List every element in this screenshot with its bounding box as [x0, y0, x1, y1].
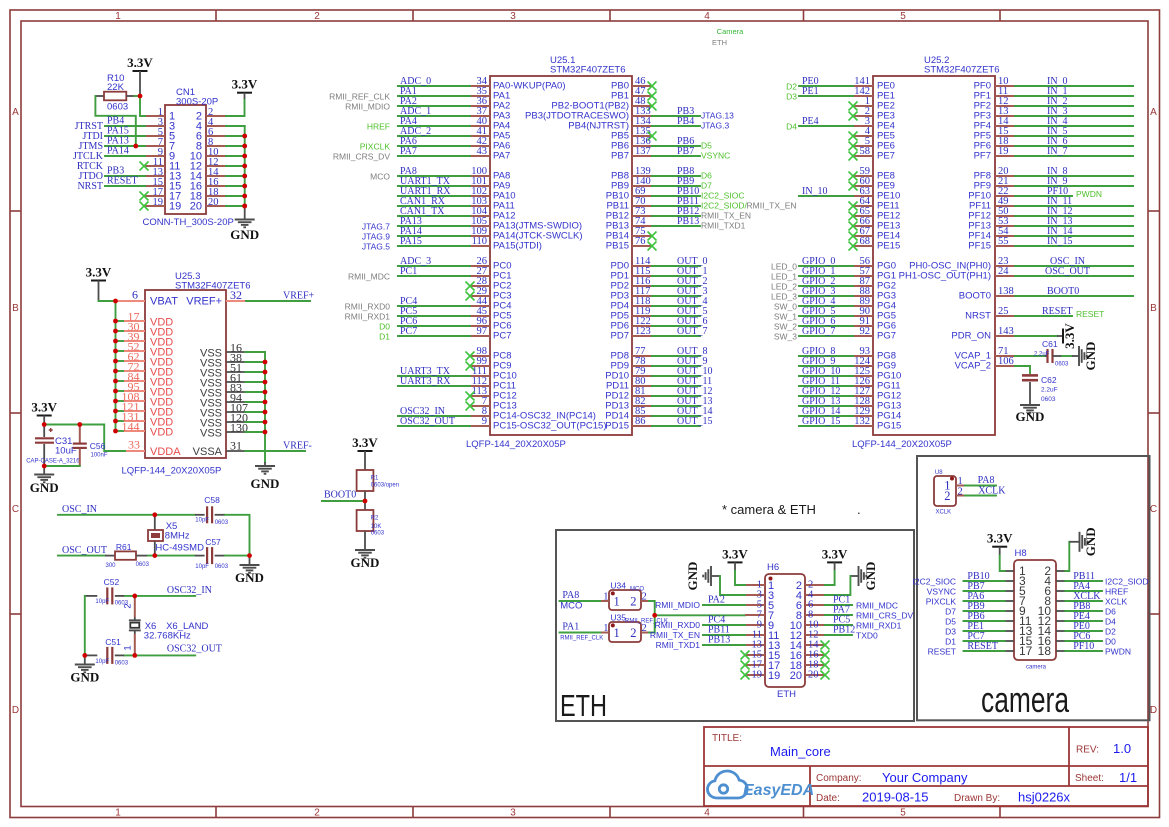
- H6 wire RMII_TX_EN PB11: [650, 625, 745, 641]
- svg-text:0603: 0603: [371, 531, 385, 537]
- svg-text:10pF: 10pF: [195, 564, 209, 570]
- svg-text:VREF-: VREF-: [283, 441, 312, 452]
- CN1 pin 5 (left): [145, 127, 175, 143]
- H6 pin 14 (right): [790, 640, 825, 652]
- svg-text:GND: GND: [1016, 409, 1045, 424]
- svg-text:3.3V: 3.3V: [722, 546, 748, 561]
- U25.1 pin 133 PB3(JTDOTRACESWO) (right): [525, 106, 734, 121]
- H8 wire D1 PC7 (left): [945, 631, 1004, 647]
- svg-text:H8: H8: [1015, 548, 1027, 559]
- svg-text:20: 20: [808, 670, 819, 681]
- svg-text:R1: R1: [371, 476, 379, 482]
- svg-text:0603: 0603: [1041, 396, 1056, 403]
- svg-text:REV:: REV:: [1076, 745, 1099, 756]
- svg-text:I2C2_SIOD: I2C2_SIOD: [1105, 577, 1148, 587]
- capacitor C62 2.2uF: [1022, 375, 1058, 404]
- CN1 pin 13 (left): [145, 167, 181, 183]
- H6 pin 17 (left): [745, 660, 780, 672]
- CN1 pin 19 (left): [145, 197, 181, 213]
- svg-text:PA7: PA7: [493, 150, 510, 161]
- svg-text:86: 86: [635, 416, 646, 427]
- svg-text:PC1: PC1: [400, 266, 417, 277]
- H6 wire RMII_CRS_DV PA7 (right): [825, 605, 913, 621]
- U25.2 pin 66 PE13 (left): [849, 216, 901, 231]
- svg-text:LED_0: LED_0: [771, 262, 797, 272]
- U25.2 pin 5 PE6 (left): [849, 136, 895, 151]
- svg-text:R2: R2: [371, 516, 379, 522]
- H8 wire I2C2_SIOC PB10 (left): [913, 571, 1005, 587]
- H6 wire RMII_MDC PC1 (right): [825, 595, 898, 611]
- U25.3 pin 83 VSS: [200, 381, 265, 400]
- svg-text:PDR_ON: PDR_ON: [951, 330, 991, 341]
- H8 wire D7 PB9 (left): [945, 601, 1004, 617]
- node BOOT0 wire and junction: [322, 490, 365, 511]
- H6 pin 18 (right): [790, 660, 825, 672]
- U25.1 pin 37 PA3 (left): [398, 106, 510, 121]
- U25.3 pin 38 VSS: [200, 351, 265, 370]
- U25.2 pin 13 PF3 (right): [974, 106, 1133, 121]
- svg-text:NRST: NRST: [965, 310, 991, 321]
- svg-text:PA8: PA8: [978, 475, 995, 486]
- svg-text:JTAG.9: JTAG.9: [362, 232, 390, 242]
- U25.1 pin 80 PD11 (right): [606, 376, 712, 391]
- H8 pin 4 (right): [1044, 574, 1065, 588]
- svg-text:RESET: RESET: [928, 647, 956, 657]
- CN1 pin 14 (right): [190, 167, 226, 183]
- svg-text:RMII_TXD1: RMII_TXD1: [656, 640, 701, 650]
- svg-text:JTAG.7: JTAG.7: [362, 222, 390, 232]
- H6 pin 10 (right): [790, 620, 825, 632]
- svg-text:1: 1: [958, 476, 963, 487]
- U25.1 pin 111 PC10 (left): [398, 366, 517, 381]
- svg-text:B: B: [12, 303, 19, 314]
- svg-text:RMII_TXD1: RMII_TXD1: [701, 221, 746, 231]
- U25.1 pin 139 PB8 (right): [611, 166, 712, 181]
- H8 pin 15 (left): [1005, 634, 1033, 648]
- svg-text:GND: GND: [230, 227, 259, 242]
- U25.2 pin 50 PF12 (right): [968, 206, 1133, 221]
- svg-text:1: 1: [115, 11, 121, 22]
- svg-text:5: 5: [900, 807, 906, 818]
- svg-text:24: 24: [998, 266, 1009, 277]
- H6 pin 1 (left): [745, 580, 774, 592]
- svg-text:RMII_TX_EN: RMII_TX_EN: [747, 201, 797, 211]
- U25.2 pin 142 PE1 (left): [786, 86, 895, 102]
- ETH sub-circuit box: [556, 530, 914, 723]
- svg-text:2019-08-15: 2019-08-15: [862, 790, 929, 805]
- svg-text:PD7: PD7: [611, 330, 629, 341]
- U25.2 pin 92 PG7 (left): [774, 326, 896, 342]
- svg-text:RMII_TX_EN: RMII_TX_EN: [701, 211, 751, 221]
- svg-text:LED_2: LED_2: [771, 282, 797, 292]
- svg-text:PG15: PG15: [877, 420, 901, 431]
- svg-text:3: 3: [510, 807, 516, 818]
- U25.2 pin 3 PE4 (left): [786, 116, 895, 132]
- svg-text:19: 19: [768, 670, 780, 682]
- U25.1 pin 117 PD3 (right): [611, 286, 708, 301]
- U25.2 pin 1 PE2 (left): [849, 96, 895, 111]
- node JTRST wire to CN1: [75, 116, 145, 133]
- H6 pin 6 (right): [796, 600, 825, 612]
- H8 wire D5 PB6 (left): [945, 611, 1004, 627]
- H8 pin 14 (right): [1038, 624, 1066, 638]
- svg-text:OSC_OUT: OSC_OUT: [1045, 266, 1090, 277]
- node JTDI wire to CN1: [82, 126, 145, 143]
- U25.2 pin 129 PG14 (left): [799, 406, 901, 421]
- svg-text:hsj0226x: hsj0226x: [1018, 790, 1071, 805]
- svg-text:JTAG.5: JTAG.5: [362, 242, 390, 252]
- U25.1 pin 35 PA1 (left): [329, 86, 510, 102]
- svg-text:TITLE:: TITLE:: [712, 733, 742, 744]
- svg-text:3.3V: 3.3V: [127, 55, 153, 70]
- svg-text:10pF: 10pF: [195, 518, 209, 524]
- svg-text:143: 143: [998, 326, 1014, 337]
- svg-text:XCLK: XCLK: [936, 510, 952, 516]
- svg-text:PB7: PB7: [611, 150, 629, 161]
- H6 pin 5 (left): [745, 600, 774, 612]
- svg-text:GND: GND: [70, 670, 99, 685]
- CN1 pin 7 (left): [145, 137, 175, 153]
- H8 pin 13 (left): [1005, 624, 1033, 638]
- svg-text:PD15: PD15: [605, 420, 629, 431]
- ground GND below C62: [1016, 405, 1045, 424]
- svg-text:OSC32_OUT: OSC32_OUT: [400, 416, 455, 427]
- svg-text:2: 2: [123, 603, 134, 608]
- U25.1 pin 7 PC13 (left): [466, 396, 517, 411]
- svg-text:STM32F407ZET6: STM32F407ZET6: [924, 65, 1000, 76]
- svg-text:MCO: MCO: [370, 172, 390, 182]
- U25.1 pin 102 PA10 (left): [398, 186, 516, 201]
- U25.2 pin 24 PH1-OSC_OUT wire OSC_OUT: [899, 266, 1133, 281]
- svg-text:C52: C52: [104, 577, 120, 587]
- U25.3 pin 17 VDD: [116, 310, 174, 329]
- svg-text:BOOT0: BOOT0: [959, 290, 991, 301]
- ground GND sideways at H8 pin 2: [1065, 527, 1098, 571]
- svg-text:C57: C57: [205, 537, 221, 547]
- svg-text:2: 2: [630, 595, 636, 609]
- svg-text:31: 31: [230, 439, 242, 453]
- U25.3 pin 6 VBAT: [116, 288, 179, 308]
- svg-text:106: 106: [998, 356, 1014, 367]
- U25.1 pin 98 PC8 (left): [466, 346, 512, 361]
- H8 pin 12 (right): [1038, 614, 1066, 628]
- U25.1 pin 44 PC4 (left): [345, 296, 512, 312]
- U25.3 pin 120 VSS: [200, 411, 265, 430]
- svg-text:19: 19: [752, 670, 763, 681]
- svg-text:PA8: PA8: [562, 590, 579, 601]
- svg-text:1: 1: [614, 626, 620, 640]
- svg-text:PB12: PB12: [833, 625, 855, 636]
- U25.2 pin 126 PG11 (left): [799, 376, 901, 391]
- U25.1 pin 116 PD2 (right): [611, 276, 708, 291]
- U25.1 pin 45 PC5 (left): [345, 306, 512, 322]
- resistor R10 22K 0603: [96, 73, 135, 113]
- svg-text:0603: 0603: [136, 562, 150, 568]
- node PA8 MCO wire to U34: [560, 590, 601, 612]
- U25.2 pin 93 PG8 (left): [799, 346, 896, 361]
- node JTCLK wire to CN1: [73, 146, 145, 163]
- crystal X6 32.768KHz X6_LAND: [123, 596, 209, 656]
- svg-text:1: 1: [115, 807, 121, 818]
- U25.3 pin 131 VDD: [116, 410, 174, 429]
- svg-text:Company:: Company:: [816, 773, 862, 784]
- svg-text:3.3V: 3.3V: [31, 400, 57, 415]
- svg-text:300S-20P: 300S-20P: [176, 97, 218, 108]
- wire 3.3V to VDDA: [44, 425, 125, 452]
- svg-text:EasyEDA: EasyEDA: [743, 782, 814, 799]
- svg-text:XCLK: XCLK: [1105, 597, 1128, 607]
- svg-text:132: 132: [854, 416, 870, 427]
- U25.1 pin 115 PD1 (right): [611, 266, 708, 281]
- power 3.3V at CN1 pin 2: [232, 77, 258, 100]
- svg-text:TXD0: TXD0: [856, 631, 878, 641]
- svg-text:19: 19: [169, 201, 181, 213]
- svg-text:GND: GND: [1083, 527, 1098, 556]
- H8 pin 17 (left): [1005, 644, 1033, 658]
- svg-text:C: C: [12, 504, 19, 515]
- svg-text:3.3V: 3.3V: [86, 265, 112, 280]
- H8 pin 6 (right): [1044, 584, 1065, 598]
- H8 wire D4 PE4 (right): [1065, 611, 1116, 627]
- U25.1 pin 109 PA14(JTCK-SWCLK) (left): [362, 226, 583, 242]
- svg-text:RMII_MDC: RMII_MDC: [856, 601, 898, 611]
- svg-text:PH1-OSC_OUT(PH1): PH1-OSC_OUT(PH1): [899, 270, 991, 281]
- U25.1 pin 103 PA11 (left): [398, 196, 515, 211]
- H8 pin 1 (left): [1005, 564, 1026, 578]
- U25.3 pin 51 VSS: [200, 361, 265, 380]
- ground GND sideways at H6 pin 3: [685, 562, 745, 595]
- svg-text:VDDA: VDDA: [150, 446, 181, 458]
- svg-text:camera: camera: [981, 679, 1070, 720]
- CN1 pin 4 (right): [196, 117, 226, 133]
- ground GND below VSS bus: [251, 462, 280, 491]
- U25.1 pin 69 PB10 (right): [606, 186, 745, 201]
- capacitor C52 10pF 0603: [85, 577, 129, 607]
- svg-text:3.3V: 3.3V: [1062, 323, 1077, 349]
- svg-text:D2: D2: [786, 82, 797, 92]
- U25.1 pin 134 PB4(NJTRST) (right): [568, 116, 729, 131]
- H6 pin 2 (right): [796, 580, 825, 592]
- svg-text:10pF: 10pF: [95, 659, 109, 665]
- U25.3 pin 33 VDDA: [125, 438, 181, 458]
- U25.2 pin 49 PF11 (right): [969, 196, 1133, 211]
- H6 pin 20 (right): [790, 670, 825, 682]
- svg-text:A: A: [1150, 107, 1157, 118]
- U25.1 pin 85 PD14 (right): [605, 406, 712, 421]
- svg-text:C58: C58: [204, 495, 220, 505]
- capacitor C58 10pF 0603: [195, 495, 229, 526]
- U25.2 pin 56 PG0 (left): [771, 256, 896, 272]
- CN1 pin 9 (left): [145, 147, 175, 163]
- svg-text:32: 32: [230, 288, 242, 302]
- U25.2 pin 11 PF1 (right): [974, 86, 1133, 101]
- svg-text:VCAP_2: VCAP_2: [955, 360, 991, 371]
- svg-text:C56: C56: [90, 441, 106, 451]
- U25.2 pin 54 PF14 (right): [968, 226, 1133, 241]
- U25.1 pin 118 PD4 (right): [611, 296, 708, 311]
- U25.2 pin 87 PG2 (left): [771, 276, 896, 292]
- H8 wire RESET RESET (left): [928, 641, 1005, 657]
- U25.3 pin 30 VDD: [116, 320, 174, 339]
- svg-text:RMII_MDIO: RMII_MDIO: [655, 600, 700, 610]
- U25.1 pin 26 PC0 (left): [398, 256, 511, 271]
- svg-text:0603: 0603: [215, 564, 229, 570]
- svg-text:PB7: PB7: [677, 146, 694, 157]
- U25.1 pin 82 PD13 (right): [605, 396, 712, 411]
- U25.2 pin 53 PF13 (right): [968, 216, 1133, 231]
- svg-text:PF10: PF10: [1073, 641, 1094, 652]
- ground GND at 32k oscillator: [70, 655, 99, 684]
- node JTMS wire to CN1: [79, 136, 145, 153]
- U25.2 pin 141 PE0 (left): [786, 76, 895, 92]
- power 3.3V at H8 pin 1: [987, 531, 1013, 571]
- svg-text:OUT_7: OUT_7: [677, 326, 708, 337]
- node RTCK wire to CN1: [77, 161, 104, 172]
- svg-text:HREF: HREF: [1105, 587, 1128, 597]
- svg-text:VSS: VSS: [200, 427, 222, 439]
- node PA1 RMII_REF_CLK wire to U35: [560, 622, 604, 642]
- U25.3 pin 31 VSSA wire VREF-: [193, 439, 312, 458]
- U25.3 pin 52 VDD: [116, 340, 174, 359]
- svg-text:D6: D6: [701, 171, 712, 181]
- U25.1 pin 112 PC11 (left): [398, 376, 516, 391]
- U25.1 pin 47 PB1 (right): [611, 86, 656, 101]
- svg-text:97: 97: [477, 326, 488, 337]
- svg-text:PA14: PA14: [107, 146, 129, 157]
- H6 pin 12 (right): [790, 630, 825, 642]
- svg-text:76: 76: [635, 236, 646, 247]
- capacitor C56 100nF: [73, 425, 108, 467]
- svg-text:C62: C62: [1041, 375, 1057, 385]
- svg-text:SW_2: SW_2: [774, 322, 797, 332]
- svg-text:RMII_MDIO: RMII_MDIO: [345, 102, 390, 112]
- H6 wire RMII_RXD0 PC4: [655, 615, 745, 631]
- svg-text:Date:: Date:: [816, 793, 840, 804]
- wire CN1 even pins to ground bus: [226, 126, 245, 206]
- wire R61 to X5 and C57: [148, 555, 195, 557]
- U25.2 pin 128 PG13 (left): [799, 396, 901, 411]
- svg-text:2: 2: [944, 489, 950, 503]
- svg-text:GND: GND: [30, 480, 59, 495]
- U25.2 pin 65 PE12 (left): [849, 206, 901, 221]
- U25.2 pin 15 PF5 (right): [974, 126, 1133, 141]
- U25.2 pin 132 PG15 (left): [799, 416, 901, 431]
- power 3.3V at H6 pin 2: [822, 546, 848, 585]
- svg-text:PC7: PC7: [400, 326, 417, 337]
- capacitor C51 10pF 0603: [85, 637, 129, 667]
- svg-text:RMII_MDC: RMII_MDC: [348, 272, 390, 282]
- svg-text:D0: D0: [379, 322, 390, 332]
- U25.3 pin 121 VDD: [116, 400, 174, 419]
- svg-text:3: 3: [510, 11, 516, 22]
- svg-text:* camera & ETH: * camera & ETH: [722, 502, 816, 517]
- node OSC32_IN wire: [125, 585, 212, 596]
- svg-text:58: 58: [860, 146, 871, 157]
- U25.1 pin 122 PD6 (right): [611, 316, 708, 331]
- U25.2 pin 20 PF8 (right): [974, 166, 1133, 181]
- svg-text:RMII_REF_CLK: RMII_REF_CLK: [329, 92, 390, 102]
- svg-text:RMII_RXD0: RMII_RXD0: [655, 620, 701, 630]
- U25.1 pin 113 PC12 (left): [466, 386, 517, 401]
- svg-text:JTAG.13: JTAG.13: [701, 111, 734, 121]
- H6 wire RMII_TXD1 PB13: [656, 635, 745, 651]
- svg-text:GPIO_15: GPIO_15: [802, 416, 840, 427]
- wire 3.3V to VBAT and VDD bus: [99, 301, 116, 431]
- svg-text:camera: camera: [1026, 665, 1047, 671]
- svg-text:Your Company: Your Company: [882, 770, 968, 785]
- wire C31 C56 ground link: [44, 465, 80, 467]
- crystal X5 8MHz HC-49SMD: [148, 515, 204, 556]
- svg-text:OSC32_IN: OSC32_IN: [167, 585, 212, 596]
- H6 pin 3 (left): [745, 590, 774, 602]
- U25.1 pin 97 PC7 (left): [379, 326, 511, 342]
- connector H8 camera: [1014, 548, 1056, 671]
- svg-text:RMII_CRS_DV: RMII_CRS_DV: [856, 611, 913, 621]
- U25.1 pin 136 PB6 (right): [611, 136, 712, 151]
- H8 wire HREF PA4 (right): [1065, 581, 1128, 597]
- U25.2 pin 25 NRST wire RESET: [965, 306, 1104, 321]
- note camera and ETH: [722, 502, 861, 517]
- U25.2 pin 125 PG10 (left): [799, 366, 901, 381]
- svg-text:C61: C61: [1042, 339, 1058, 349]
- svg-text:5: 5: [900, 11, 906, 22]
- U25.2 pin 19 PF7 (right): [974, 146, 1133, 161]
- svg-text:D6: D6: [1105, 607, 1116, 617]
- svg-text:RMII_RXD1: RMII_RXD1: [345, 312, 391, 322]
- svg-text:GND: GND: [863, 562, 878, 591]
- svg-text:2.2uF: 2.2uF: [1034, 352, 1050, 358]
- svg-text:32.768KHz: 32.768KHz: [144, 631, 191, 642]
- U25.1 pin 79 PD10 (right): [605, 366, 712, 381]
- connector CN1 300S-20P: [143, 87, 234, 228]
- svg-text:1.0: 1.0: [1113, 741, 1131, 756]
- H8 pin 16 (right): [1038, 634, 1066, 648]
- U25.1 pin 86 PD15 (right): [605, 416, 712, 431]
- U25.2 pin 22 PF10 (right): [968, 186, 1102, 201]
- svg-text:PA7: PA7: [400, 146, 417, 157]
- svg-text:3.3V: 3.3V: [987, 531, 1013, 546]
- part U8 XCLK: [934, 470, 965, 516]
- U25.1 pin 123 PD7 (right): [611, 326, 708, 341]
- power 3.3V at VBAT: [86, 265, 112, 302]
- U25.3 pin 62 VDD: [116, 350, 174, 369]
- svg-text:100nF: 100nF: [91, 453, 108, 459]
- U25.3 pin 72 VDD: [116, 360, 174, 379]
- svg-text:U35: U35: [610, 613, 626, 623]
- U25.1 pin 46 PB0 (right): [611, 76, 656, 91]
- svg-text:RMII_REF_CLK: RMII_REF_CLK: [560, 636, 603, 642]
- svg-text:PG7: PG7: [877, 330, 896, 341]
- U25.1 pin 73 PB12 (right): [606, 206, 751, 221]
- svg-text:0603: 0603: [115, 661, 129, 667]
- U25.1 pin 114 PD0 (right): [611, 256, 708, 271]
- CN1 pin 10 (right): [190, 147, 226, 163]
- svg-text:VSYNC: VSYNC: [701, 151, 730, 161]
- svg-text:RMII_TX_EN: RMII_TX_EN: [650, 630, 700, 640]
- U25.2 pin 10 PF0 (right): [974, 76, 1133, 91]
- U25.1 pin 78 PD9 (right): [611, 356, 708, 371]
- title block: [704, 727, 1148, 806]
- H6 pin 16 (right): [790, 650, 825, 662]
- svg-text:RESET: RESET: [107, 176, 138, 187]
- U25.1 pin 9 PC15-OSC32_OUT(PC15) (left): [398, 416, 607, 431]
- U25.1 pin 29 PC3 (left): [466, 286, 512, 301]
- H8 pin 7 (left): [1005, 594, 1026, 608]
- CN1 pin 16 (right): [190, 177, 226, 193]
- capacitor C31 10uF polarized CAP-CASE-A_3216: [26, 425, 80, 467]
- U25.2 pin 64 PE11 (left): [849, 196, 900, 211]
- svg-text:PA2: PA2: [708, 595, 725, 606]
